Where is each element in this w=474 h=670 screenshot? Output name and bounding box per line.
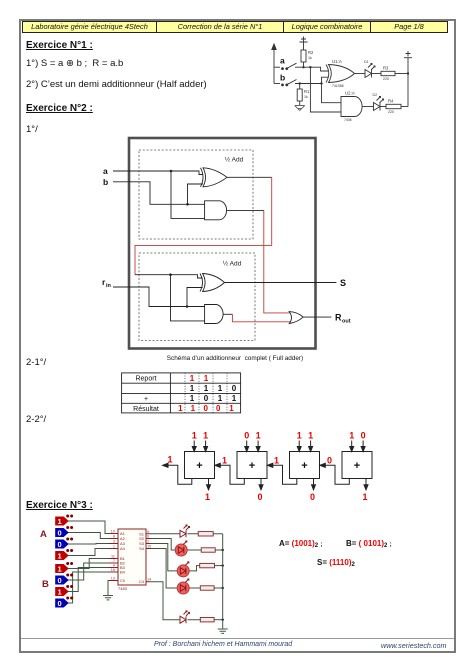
svg-text:1: 1 xyxy=(190,394,195,403)
wire to rail xyxy=(215,565,223,567)
logic state input 4 value 1 xyxy=(55,549,73,560)
wire R4 to rail xyxy=(401,106,408,108)
input arrows box3 xyxy=(297,441,312,452)
wire b to xor1 xyxy=(188,184,204,204)
op and2 xyxy=(205,305,223,324)
svg-text:+: + xyxy=(144,396,148,403)
svg-text:B: B xyxy=(42,579,49,590)
resistor R3 xyxy=(381,66,395,82)
wire R3 to rail xyxy=(395,73,408,75)
half adder 2 dashed box xyxy=(139,253,255,341)
half adder 1 dashed box xyxy=(139,150,253,239)
svg-text:1: 1 xyxy=(203,431,208,441)
carry digits xyxy=(167,455,332,466)
op or xyxy=(289,312,303,324)
svg-text:0: 0 xyxy=(257,492,262,502)
wire b xyxy=(113,182,205,205)
LED D2 lit xyxy=(175,541,187,556)
wire w1 xyxy=(67,521,109,534)
logic state input 7 value 1 xyxy=(55,585,73,596)
resistor R4 xyxy=(386,99,401,115)
wire b to XOR xyxy=(322,77,329,83)
wire to rail xyxy=(215,549,223,551)
svg-text:S: S xyxy=(340,278,346,288)
svg-text:220: 220 xyxy=(388,110,394,114)
LED D1 unlit xyxy=(180,525,190,537)
output digits xyxy=(205,492,368,502)
wire b xyxy=(295,83,322,85)
carry wire box2 to box1 xyxy=(215,463,245,484)
svg-text:11: 11 xyxy=(111,555,115,559)
adder box 3 xyxy=(290,452,320,479)
switch b xyxy=(274,73,297,87)
svg-text:8: 8 xyxy=(113,535,115,539)
svg-text:10: 10 xyxy=(111,530,115,534)
svg-text:1: 1 xyxy=(362,492,367,502)
svg-text:0: 0 xyxy=(361,431,366,441)
svg-text:D2: D2 xyxy=(373,93,378,97)
svg-text:½ Add: ½ Add xyxy=(225,155,244,163)
op and1 xyxy=(205,201,227,220)
svg-text:b: b xyxy=(103,177,108,187)
logic state input 1 value 1 xyxy=(55,515,73,526)
input arrows box4 xyxy=(350,441,365,452)
node a-branch xyxy=(309,66,311,68)
svg-text:+: + xyxy=(196,460,202,472)
node rail S3 xyxy=(222,564,224,566)
input arrows box2 xyxy=(245,441,260,452)
svg-text:1: 1 xyxy=(218,394,223,403)
svg-text:0: 0 xyxy=(204,394,209,403)
wire S1 to and2 xyxy=(171,275,205,321)
adder box 2 xyxy=(237,452,267,479)
svg-text:1: 1 xyxy=(178,404,183,413)
wire LED to R3 xyxy=(372,73,382,75)
svg-text:0: 0 xyxy=(58,576,62,585)
node rail/R3 xyxy=(407,72,409,74)
ADDER CHAIN DIAGRAM xyxy=(150,425,420,510)
wire w7 xyxy=(67,568,109,592)
op xor U1:A xyxy=(326,59,355,88)
wire w8 xyxy=(67,572,109,603)
power symbol P1 xyxy=(300,37,308,51)
node a xyxy=(170,170,173,173)
svg-text:1: 1 xyxy=(256,431,261,441)
resistor C4 xyxy=(200,618,214,622)
svg-text:+: + xyxy=(354,460,360,472)
svg-text:14: 14 xyxy=(147,578,151,582)
svg-text:R1: R1 xyxy=(304,89,310,94)
svg-text:U2:A: U2:A xyxy=(345,91,355,96)
Exercice 1 heading xyxy=(26,40,93,51)
wire and2 red to or xyxy=(232,314,291,322)
svg-text:R: R xyxy=(335,313,342,323)
resistor S1 xyxy=(198,532,213,536)
IC pin labels xyxy=(118,531,145,591)
svg-text:220: 220 xyxy=(383,77,389,81)
svg-text:1k: 1k xyxy=(308,56,312,60)
input digits xyxy=(192,431,366,441)
wire to rail xyxy=(214,619,223,621)
svg-text:1: 1 xyxy=(113,545,115,549)
svg-text:1: 1 xyxy=(222,456,227,466)
svg-text:15: 15 xyxy=(147,545,151,549)
svg-text:3: 3 xyxy=(113,540,115,544)
svg-text:1: 1 xyxy=(349,431,354,441)
resistor R2 xyxy=(301,50,314,62)
svg-text:0: 0 xyxy=(232,384,237,393)
svg-text:R2: R2 xyxy=(308,50,314,55)
node b xyxy=(186,203,189,206)
rail wire xyxy=(222,534,224,629)
svg-text:Résultat: Résultat xyxy=(133,406,159,413)
carry wire box3 to box2 xyxy=(267,463,297,484)
ground under R1 xyxy=(295,106,305,111)
IC 7483 body xyxy=(109,529,151,585)
svg-text:R3: R3 xyxy=(383,66,389,71)
resistor R1 xyxy=(297,84,310,107)
logic state input 8 value 0 xyxy=(55,597,73,608)
svg-text:C0: C0 xyxy=(120,578,126,583)
wire S1 into xor2 xyxy=(135,275,203,278)
wire R1 red route xyxy=(264,210,292,313)
LED D3 lit xyxy=(177,562,189,577)
output arrows xyxy=(207,479,369,490)
svg-text:13: 13 xyxy=(111,577,115,581)
svg-text:1: 1 xyxy=(232,394,237,403)
full adder outer box xyxy=(129,138,316,349)
adder box 4 xyxy=(342,452,372,479)
svg-text:½ Add: ½ Add xyxy=(223,260,242,268)
svg-text:0: 0 xyxy=(327,456,332,466)
wire a xyxy=(295,67,328,71)
node rin xyxy=(186,305,189,308)
wire rin to xor2 xyxy=(187,288,203,307)
svg-text:C4: C4 xyxy=(139,579,145,584)
svg-text:Report: Report xyxy=(135,376,156,383)
svg-text:b: b xyxy=(280,73,285,83)
wire and2 out black xyxy=(223,313,232,315)
svg-text:7408: 7408 xyxy=(344,118,352,122)
svg-text:7483: 7483 xyxy=(118,586,128,591)
wire a to and1 xyxy=(171,171,205,218)
svg-text:U1:A: U1:A xyxy=(332,59,342,64)
svg-text:9: 9 xyxy=(147,530,149,534)
svg-text:+: + xyxy=(301,460,307,472)
svg-text:R4: R4 xyxy=(388,99,394,104)
wire rin xyxy=(113,287,205,307)
wire S3 xyxy=(151,544,200,571)
EX1 CIRCUIT: demi additionneur schematic xyxy=(250,36,460,136)
IC pin numbers xyxy=(111,530,151,582)
wire S out xyxy=(225,282,337,284)
svg-text:2: 2 xyxy=(147,540,149,544)
svg-text:1: 1 xyxy=(308,431,313,441)
svg-text:S4: S4 xyxy=(139,546,145,551)
svg-text:0: 0 xyxy=(244,431,249,441)
svg-text:1: 1 xyxy=(58,587,62,596)
svg-text:a: a xyxy=(103,166,108,176)
adder box 1 xyxy=(185,452,215,479)
logic state input 6 value 0 xyxy=(55,574,73,585)
wire a to AND xyxy=(310,67,341,112)
wire w3 xyxy=(67,543,109,546)
op and U2:A xyxy=(341,91,362,123)
wire b to AND xyxy=(322,84,342,103)
wire S1 xyxy=(151,533,198,535)
svg-text:1: 1 xyxy=(229,404,234,413)
wire a xyxy=(113,171,203,175)
svg-text:A4: A4 xyxy=(120,546,126,551)
wire S2 xyxy=(151,539,201,551)
svg-text:1: 1 xyxy=(58,551,62,560)
rail wire xyxy=(407,58,409,107)
svg-text:0: 0 xyxy=(310,492,315,502)
svg-text:D1: D1 xyxy=(364,60,369,64)
node S1 xyxy=(169,273,172,276)
EX2 FULL ADDER DIAGRAM xyxy=(95,135,355,368)
wire S1 red route xyxy=(135,177,272,274)
wire w4 xyxy=(67,549,109,556)
wire C4 xyxy=(151,582,200,620)
svg-text:B4: B4 xyxy=(120,570,126,575)
wire C0 to ground xyxy=(108,581,109,596)
EX3 CIRCUIT (7483 adder simulation) xyxy=(38,512,260,643)
A/B/S values xyxy=(279,539,322,548)
svg-text:1: 1 xyxy=(204,384,209,393)
svg-text:in: in xyxy=(106,283,112,289)
svg-text:0: 0 xyxy=(58,528,62,537)
wire R2 to node xyxy=(303,62,305,67)
svg-text:1: 1 xyxy=(190,374,195,383)
wire to rail xyxy=(213,533,223,535)
resistor S4 xyxy=(200,586,214,590)
svg-text:1: 1 xyxy=(218,384,223,393)
wire w5 xyxy=(67,559,109,569)
node R2/a xyxy=(302,66,304,68)
wire w6 xyxy=(67,563,109,580)
wire xor out xyxy=(355,73,366,75)
svg-text:0: 0 xyxy=(216,404,221,413)
LED D2 xyxy=(373,93,384,111)
resistor S2 xyxy=(201,548,215,552)
svg-text:6: 6 xyxy=(147,535,149,539)
resistor S3 xyxy=(200,563,215,567)
wire xor1 out (S1) black xyxy=(227,176,272,178)
svg-text:1: 1 xyxy=(58,564,62,573)
svg-text:1k: 1k xyxy=(304,95,308,99)
wire to rail xyxy=(214,587,223,589)
svg-text:0: 0 xyxy=(203,404,208,413)
wire and out xyxy=(362,106,374,108)
svg-text:+: + xyxy=(249,460,255,472)
svg-text:out: out xyxy=(342,319,351,325)
svg-text:16: 16 xyxy=(111,568,115,572)
svg-text:1: 1 xyxy=(190,384,195,393)
input arrows box1 xyxy=(192,441,207,452)
switch a xyxy=(274,56,297,71)
wire S4 xyxy=(151,549,200,589)
wire w2 xyxy=(67,533,109,539)
caption xyxy=(135,355,335,362)
svg-text:74LS86: 74LS86 xyxy=(332,84,344,88)
wire or out xyxy=(303,316,332,318)
op xor2 xyxy=(200,274,225,292)
svg-text:1: 1 xyxy=(191,404,196,413)
svg-text:0: 0 xyxy=(58,599,62,608)
carry wire box4 to box3 xyxy=(320,463,350,484)
ground rail xyxy=(218,629,228,633)
ADDITION TABLE xyxy=(121,372,243,421)
svg-text:1: 1 xyxy=(274,456,279,466)
svg-text:4: 4 xyxy=(113,564,115,568)
LED D1 xyxy=(364,60,375,78)
header table xyxy=(22,21,157,33)
node rail C4 xyxy=(222,619,224,621)
svg-text:7: 7 xyxy=(113,559,115,563)
svg-text:a: a xyxy=(280,56,285,66)
node b-branch xyxy=(320,82,322,84)
Exercice 3 xyxy=(26,500,93,511)
logic state input 3 value 0 xyxy=(55,538,73,549)
LED D4 lit xyxy=(177,579,189,594)
svg-text:1: 1 xyxy=(167,455,172,465)
LED D5 unlit xyxy=(180,611,190,623)
logic state input 5 value 1 xyxy=(55,562,73,573)
svg-text:0: 0 xyxy=(58,540,62,549)
svg-text:1: 1 xyxy=(192,431,197,441)
node rail S2 xyxy=(222,549,224,551)
node rail S4 xyxy=(222,587,224,589)
VCC arrow xyxy=(272,44,276,84)
wire LED to R4 xyxy=(380,106,386,108)
carry wire final xyxy=(163,463,192,484)
node b/R1 xyxy=(299,82,301,84)
power symbol P2 xyxy=(404,51,412,58)
footer separator xyxy=(21,638,454,639)
ground C0 xyxy=(103,596,113,600)
svg-text:1: 1 xyxy=(205,492,210,502)
svg-text:1: 1 xyxy=(58,517,62,526)
footer xyxy=(154,641,292,648)
svg-text:A: A xyxy=(40,529,47,540)
svg-text:1: 1 xyxy=(204,374,209,383)
logic state input 2 value 0 xyxy=(55,526,73,537)
svg-text:1: 1 xyxy=(297,431,302,441)
op xor1 xyxy=(201,168,228,187)
wire and1 out black xyxy=(227,209,264,211)
